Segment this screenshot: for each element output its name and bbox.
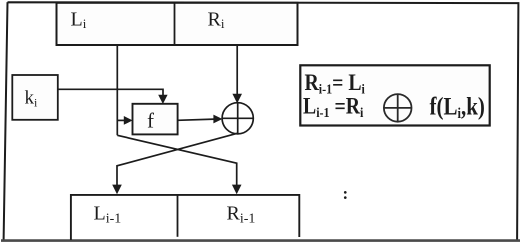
arrowhead into f top [158,95,167,104]
svg-text:f: f [147,109,154,133]
register box Li|Ri [57,3,298,45]
svg-text:Li-1 =Ri: Li-1 =Ri [303,93,364,120]
formula xor symbol [384,94,412,122]
arrowhead into xor top [232,94,242,104]
output box Li-1|Ri-1 [71,195,299,240]
wire branch into f left [117,119,125,121]
wire ki to f (horizontal then down) [58,89,163,96]
formula box [300,65,489,125]
arrowhead into Ri-1 [232,185,242,195]
arrowhead into Li-1 [112,185,122,195]
divider between Li and Ri [174,3,176,45]
wire Li cross to Ri-1 (diagonal then down) [117,135,236,186]
xor node circle-plus [222,103,253,134]
svg-text::: : [343,184,349,203]
key box ki [12,75,58,120]
divider between Li-1 and Ri-1 [177,195,179,237]
wire Ri down to xor [236,45,238,95]
arrowhead into f left [124,116,133,125]
arrowhead into xor left [213,115,222,124]
wire Li down [116,45,118,135]
outer border bottom edge [1,239,520,242]
svg-text:f(Li,k): f(Li,k) [430,92,485,121]
wire f to xor [178,119,215,120]
function box f [133,104,178,135]
wire xor cross to Li-1 (diagonal then down) [117,133,237,186]
